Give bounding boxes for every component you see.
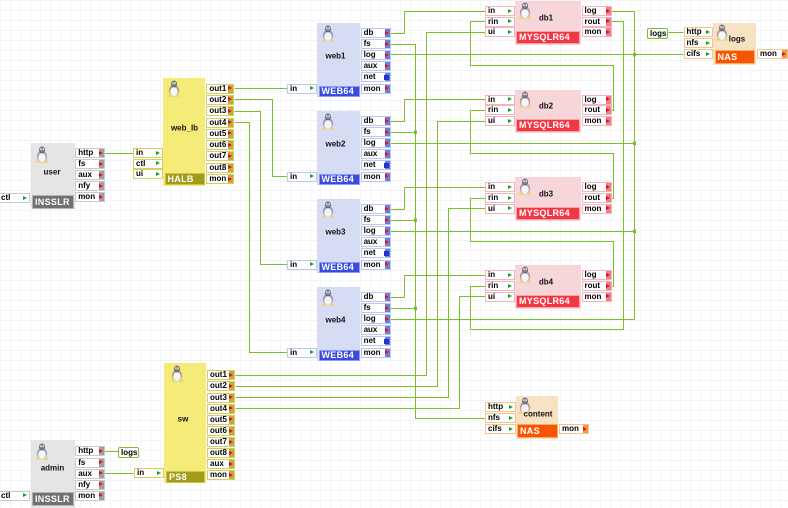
node sw name <box>178 415 189 424</box>
wire web_lb.out1 - web1.in <box>235 88 288 90</box>
port db1.mon <box>582 27 612 37</box>
net label logs <box>647 28 668 39</box>
wire db2.rout - db1.rin <box>471 22 614 111</box>
port web1.in <box>287 84 317 94</box>
port db4.rout <box>582 281 612 291</box>
label WEB64 <box>319 86 360 97</box>
node web_lb body <box>163 78 205 186</box>
node db2 name <box>539 102 553 111</box>
port web_lb.ui <box>133 169 163 179</box>
port web_lb.out3 <box>206 106 234 116</box>
label MYSQLR64 <box>516 31 580 44</box>
port web1.mon <box>361 84 391 94</box>
junction log-web2 <box>633 142 636 145</box>
port db3.log <box>582 182 612 192</box>
port db2.rout <box>582 105 612 115</box>
node user body <box>31 143 75 209</box>
port db1.rout <box>582 17 612 27</box>
icon tux db2 <box>518 91 532 108</box>
node db1 name <box>539 13 553 22</box>
junction fs-web2 <box>414 130 417 133</box>
node db4 body <box>515 265 581 309</box>
port web2.log <box>361 138 391 148</box>
port web3.in <box>287 260 317 270</box>
port web2.in <box>287 172 317 182</box>
port db3.ui <box>485 204 515 214</box>
wire web2.log join <box>391 143 635 145</box>
node sw body <box>164 363 206 483</box>
port admin.aux <box>75 469 105 479</box>
port user.mon <box>75 192 105 202</box>
node logs body <box>713 23 756 65</box>
node admin name <box>41 464 65 473</box>
node db1 body <box>515 1 581 45</box>
port content.nfs <box>485 413 516 423</box>
label INSSLR <box>32 492 74 506</box>
label WEB64 <box>319 262 360 273</box>
node web4 name <box>325 316 345 325</box>
port web1.net <box>361 72 391 82</box>
wire web_lb.out3 - web3.in <box>235 112 288 265</box>
port logs.http <box>684 27 713 37</box>
port db2.mon <box>582 116 612 126</box>
port web_lb.out2 <box>206 95 234 105</box>
port web_lb.in <box>133 148 163 158</box>
port db2.rin <box>485 105 515 115</box>
port web_lb.mon <box>206 174 234 184</box>
wire web_lb.out2 - web2.in <box>235 100 288 177</box>
port user.nfy <box>75 181 105 191</box>
port web1.fs <box>361 39 391 49</box>
icon tux db3 <box>518 178 532 195</box>
junction log-web1 <box>633 53 636 56</box>
wire fs bus web1.fs - content.nfs <box>391 45 486 419</box>
node web1 body <box>317 23 360 97</box>
port admin.ctl <box>0 491 30 501</box>
port user.aux <box>75 170 105 180</box>
port web3.aux <box>361 237 391 247</box>
port db4.mon <box>582 292 612 302</box>
junction log-web3 <box>633 230 636 233</box>
label WEB64 <box>319 350 360 361</box>
port content.cifs <box>485 424 516 434</box>
port sw.aux <box>207 459 235 469</box>
port web_lb.out8 <box>206 163 234 173</box>
wire web4.log join <box>391 319 635 321</box>
icon tux user <box>35 146 49 163</box>
port sw.out5 <box>207 415 235 425</box>
wire db4.rout - db3.rin <box>471 199 614 287</box>
node web1 name <box>325 52 345 61</box>
port web_lb.out7 <box>206 151 234 161</box>
port user.ctl <box>0 193 30 203</box>
node user name <box>44 167 61 176</box>
port logs.nfs <box>684 38 713 48</box>
wire web1.log - logs.cifs <box>391 54 684 56</box>
port web_lb.ctl <box>133 159 163 169</box>
label MYSQLR64 <box>516 119 580 132</box>
wire db3.rout - db2.rin <box>471 111 614 199</box>
label PS8 <box>166 471 205 483</box>
icon tux content <box>518 397 532 414</box>
icon tux admin <box>35 443 49 460</box>
port db3.mon <box>582 204 612 214</box>
port logs.cifs <box>684 49 713 59</box>
wire label logs - logs.http <box>669 32 684 34</box>
wire web3.log join <box>391 231 635 233</box>
port sw.out7 <box>207 437 235 447</box>
port web_lb.out4 <box>206 118 234 128</box>
label MYSQLR64 <box>516 207 580 220</box>
wire web2.db - db2.in <box>391 100 486 122</box>
port db1.in <box>485 6 515 16</box>
wire sw.out2 - db2.ui <box>236 122 486 387</box>
port web1.log <box>361 50 391 60</box>
node web3 body <box>317 199 360 273</box>
node db3 body <box>515 177 581 221</box>
node web4 body <box>317 287 360 361</box>
port sw.out4 <box>207 404 235 414</box>
port user.http <box>75 148 105 158</box>
port web2.fs <box>361 127 391 137</box>
port db1.log <box>582 6 612 16</box>
port db4.in <box>485 270 515 280</box>
label NAS <box>517 424 558 438</box>
icon tux web3 <box>321 201 335 218</box>
port admin.nfy <box>75 480 105 490</box>
port web4.in <box>287 348 317 358</box>
node db2 body <box>515 90 581 134</box>
icon tux logs <box>715 24 729 41</box>
icon tux web4 <box>321 289 335 306</box>
port sw.out1 <box>207 370 235 380</box>
node content name <box>524 409 553 418</box>
icon tux sw <box>170 365 184 382</box>
node web2 name <box>325 140 345 149</box>
port web2.mon <box>361 172 391 182</box>
port db1.ui <box>485 27 515 37</box>
port db3.rin <box>485 193 515 203</box>
port web4.db <box>361 292 391 302</box>
port web2.db <box>361 116 391 126</box>
port web3.fs <box>361 215 391 225</box>
node content body <box>516 396 558 439</box>
port content.mon <box>559 424 589 434</box>
port admin.fs <box>75 458 105 468</box>
port sw.out8 <box>207 448 235 458</box>
label HALB <box>165 173 205 186</box>
icon tux db4 <box>518 266 532 283</box>
port content.http <box>485 402 516 412</box>
port admin.http <box>75 446 105 456</box>
port sw.out6 <box>207 426 235 436</box>
node web2 body <box>317 111 360 185</box>
icon tux web1 <box>321 25 335 42</box>
net label logs <box>118 447 139 458</box>
port web_lb.out1 <box>206 84 234 94</box>
port web4.aux <box>361 325 391 335</box>
port admin.mon <box>75 491 105 501</box>
port db1.rin <box>485 17 515 27</box>
wire web_lb.out4 - web4.in <box>235 123 288 353</box>
junction fs-web3 <box>414 218 417 221</box>
port sw.in <box>134 468 164 478</box>
icon tux web_lb <box>167 80 181 97</box>
port web_lb.out5 <box>206 129 234 139</box>
port user.fs <box>75 159 105 169</box>
wire log bus db1.log down <box>612 12 635 320</box>
port web3.log <box>361 226 391 236</box>
port web4.net <box>361 336 391 346</box>
label MYSQLR64 <box>516 295 580 308</box>
junction fs-web4 <box>414 306 417 309</box>
port db3.rout <box>582 193 612 203</box>
port web2.aux <box>361 149 391 159</box>
port web4.fs <box>361 303 391 313</box>
icon tux web2 <box>321 113 335 130</box>
wire web4.fs join <box>391 308 416 310</box>
port db3.in <box>485 182 515 192</box>
wire web3.db - db3.in <box>391 188 486 210</box>
port db2.ui <box>485 116 515 126</box>
node web_lb name <box>171 123 198 132</box>
node logs name <box>729 35 745 44</box>
port web3.db <box>361 204 391 214</box>
port web4.mon <box>361 348 391 358</box>
port sw.out3 <box>207 393 235 403</box>
node db3 name <box>539 189 553 198</box>
wire admin.http - label logs <box>105 451 119 453</box>
port web1.db <box>361 28 391 38</box>
port web4.log <box>361 314 391 324</box>
node db4 name <box>539 277 553 286</box>
wire db1.rout - db4.rin <box>471 22 624 330</box>
port sw.out2 <box>207 381 235 391</box>
wire web1.db - db1.in <box>391 12 486 34</box>
wire web3.fs join <box>391 220 416 222</box>
wire sw.out1 - db1.ui <box>236 33 486 376</box>
wire admin.aux - sw.in <box>105 473 135 475</box>
wire web4.db - db4.in <box>391 276 486 298</box>
wire sw.out3 - db3.ui <box>236 209 486 398</box>
label WEB64 <box>319 174 360 185</box>
wire sw.out4 - db4.ui <box>236 297 486 409</box>
port logs.mon <box>757 49 788 59</box>
port db4.log <box>582 270 612 280</box>
port sw.mon <box>207 470 235 480</box>
icon tux db1 <box>518 2 532 19</box>
port db4.rin <box>485 281 515 291</box>
port db4.ui <box>485 292 515 302</box>
node web3 name <box>325 228 345 237</box>
port web1.aux <box>361 61 391 71</box>
port web_lb.out6 <box>206 140 234 150</box>
port db2.in <box>485 95 515 105</box>
label NAS <box>715 50 755 64</box>
label INSSLR <box>32 195 74 209</box>
port web3.mon <box>361 260 391 270</box>
node admin body <box>31 440 75 508</box>
port web2.net <box>361 160 391 170</box>
port web3.net <box>361 248 391 258</box>
wire user.http - web_lb.in <box>105 153 134 155</box>
port db2.log <box>582 95 612 105</box>
wire web2.fs join <box>391 132 416 134</box>
